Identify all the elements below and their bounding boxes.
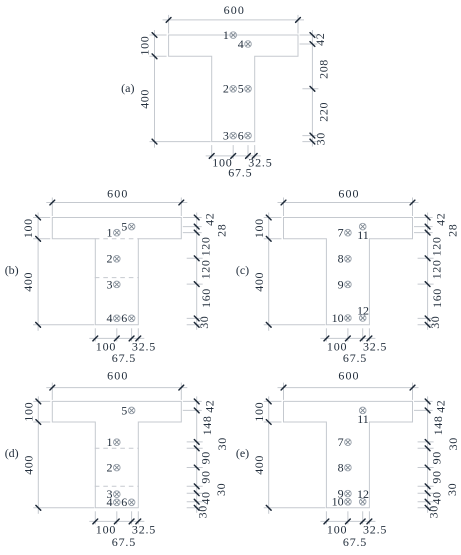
svg-text:5: 5 — [121, 220, 127, 234]
figure (e) strain gauge 8 — [338, 461, 352, 475]
svg-text:8: 8 — [338, 461, 344, 475]
svg-text:120: 120 — [430, 259, 444, 279]
svg-text:(e): (e) — [236, 446, 249, 460]
svg-text:12: 12 — [357, 487, 369, 501]
svg-text:11: 11 — [357, 228, 369, 242]
figure (a) top dimension 600 — [163, 3, 304, 34]
svg-text:1: 1 — [223, 28, 229, 42]
svg-text:5: 5 — [121, 403, 127, 417]
svg-text:100: 100 — [138, 36, 152, 56]
figure (c) sub-label (c) — [236, 263, 249, 277]
svg-text:7: 7 — [338, 435, 344, 449]
figure (d) sub-label (d) — [5, 446, 19, 460]
svg-text:30: 30 — [428, 316, 442, 329]
svg-text:30: 30 — [427, 505, 441, 518]
figure (a) left dimension 100 and 400 — [138, 30, 211, 148]
figure (d) strain gauge 6 — [121, 495, 135, 509]
svg-text:600: 600 — [107, 369, 128, 383]
svg-text:28: 28 — [445, 224, 459, 237]
figure (b) T-beam cross-section outline — [52, 218, 181, 325]
svg-text:600: 600 — [107, 187, 128, 201]
svg-text:10: 10 — [332, 311, 344, 325]
svg-text:6: 6 — [121, 311, 127, 325]
svg-text:67.5: 67.5 — [112, 351, 136, 365]
svg-text:3: 3 — [107, 277, 113, 291]
svg-text:12: 12 — [357, 303, 369, 317]
figure (a) strain gauge 2 — [223, 82, 237, 96]
figure (d) dashed layer line 2 — [95, 485, 139, 487]
svg-text:100: 100 — [252, 218, 266, 238]
figure (b) strain gauge 2 — [107, 252, 121, 266]
svg-text:67.5: 67.5 — [343, 351, 367, 365]
svg-text:(a): (a) — [121, 81, 134, 95]
svg-text:(c): (c) — [236, 263, 249, 277]
figure (d) top dimension 600 — [46, 369, 187, 400]
svg-text:67.5: 67.5 — [343, 535, 367, 549]
figure (e) strain gauge 9 — [338, 487, 352, 501]
figure (a) right dimension chain — [300, 30, 331, 147]
figure (b) strain gauge 1 — [107, 226, 121, 240]
figure (e) sub-label (e) — [236, 446, 249, 460]
svg-text:160: 160 — [199, 288, 213, 308]
figure (d) strain gauge 3 — [107, 487, 121, 501]
svg-text:220: 220 — [316, 102, 330, 122]
svg-text:67.5: 67.5 — [112, 535, 136, 549]
figure (b) strain gauge 5 — [121, 220, 135, 234]
figure (e) right dimension chain — [414, 396, 460, 518]
svg-text:4: 4 — [238, 37, 244, 51]
svg-text:6: 6 — [238, 129, 244, 143]
figure (d) right dimension chain — [183, 396, 229, 518]
figure (c) strain gauge 7 — [338, 226, 352, 240]
figure (a) strain gauge 1 — [223, 28, 237, 42]
figure (c) strain gauge 11 — [357, 223, 369, 242]
svg-text:30: 30 — [446, 437, 460, 450]
svg-text:90: 90 — [430, 451, 444, 464]
svg-text:600: 600 — [224, 3, 245, 17]
svg-text:2: 2 — [223, 82, 229, 96]
svg-text:6: 6 — [121, 495, 127, 509]
figure (d) strain gauge 2 — [107, 461, 121, 475]
figure (c) bottom dimensions 100, 67.5, 32.5 — [320, 328, 387, 365]
figure (e) strain gauge 12 — [357, 487, 369, 505]
svg-text:100: 100 — [21, 402, 35, 422]
figure (a) T-beam cross-section outline — [169, 35, 298, 142]
figure (d) strain gauge 4 — [107, 495, 121, 509]
svg-text:30: 30 — [314, 132, 328, 145]
svg-text:120: 120 — [199, 259, 213, 279]
svg-text:2: 2 — [107, 252, 113, 266]
svg-text:120: 120 — [199, 236, 213, 256]
svg-text:42: 42 — [433, 400, 447, 413]
svg-text:30: 30 — [215, 437, 229, 450]
svg-text:208: 208 — [316, 59, 330, 79]
svg-text:(b): (b) — [5, 263, 19, 277]
svg-text:40: 40 — [199, 491, 213, 504]
figure (b) strain gauge 3 — [107, 277, 121, 291]
figure (e) strain gauge 11 — [357, 407, 369, 426]
figure (a) strain gauge 6 — [238, 129, 252, 143]
figure (e) top dimension 600 — [278, 369, 419, 400]
figure (e) strain gauge 7 — [338, 435, 352, 449]
figure (d) left dimension 100 and 400 — [21, 396, 94, 513]
figure (e) bottom dimensions 100, 67.5, 32.5 — [320, 511, 387, 549]
figure (b) strain gauge 6 — [121, 311, 135, 325]
figure (b) top dimension 600 — [46, 187, 187, 217]
figure (c) left dimension 100 and 400 — [252, 213, 326, 331]
figure (b) right dimension chain — [183, 213, 229, 330]
svg-text:30: 30 — [196, 505, 210, 518]
svg-text:90: 90 — [430, 470, 444, 483]
figure (b) sub-label (b) — [5, 263, 19, 277]
svg-text:400: 400 — [252, 455, 266, 475]
svg-text:90: 90 — [199, 470, 213, 483]
figure (b) dashed layer line 1 — [95, 238, 139, 240]
figure (c) right dimension chain — [414, 213, 459, 330]
svg-text:148: 148 — [431, 415, 445, 435]
svg-text:2: 2 — [107, 461, 113, 475]
figure (d) bottom dimensions 100, 67.5, 32.5 — [89, 511, 156, 549]
svg-text:600: 600 — [338, 369, 359, 383]
svg-text:3: 3 — [223, 129, 229, 143]
figure (a) sub-label (a) — [121, 81, 134, 95]
svg-text:9: 9 — [338, 277, 344, 291]
figure (b) strain gauge 4 — [107, 311, 121, 325]
svg-text:30: 30 — [214, 483, 228, 496]
svg-text:30: 30 — [445, 483, 459, 496]
svg-text:40: 40 — [430, 491, 444, 504]
svg-text:10: 10 — [332, 495, 344, 509]
figure (b) bottom dimensions 100, 67.5, 32.5 — [89, 328, 156, 365]
svg-text:400: 400 — [252, 272, 266, 292]
figure (d) dashed layer line 1 — [95, 447, 139, 449]
figure (a) bottom dimensions 100, 67.5, 32.5 — [206, 145, 273, 180]
figure (a) strain gauge 4 — [238, 37, 252, 51]
figure (b) dashed layer line 2 — [95, 277, 139, 279]
figure (c) strain gauge 8 — [338, 252, 352, 266]
svg-text:1: 1 — [107, 435, 113, 449]
figure (c) strain gauge 9 — [338, 277, 352, 291]
svg-text:400: 400 — [21, 455, 35, 475]
svg-text:11: 11 — [357, 412, 369, 426]
svg-text:400: 400 — [138, 89, 152, 109]
figure (d) T-beam cross-section outline — [52, 401, 181, 507]
svg-text:8: 8 — [338, 252, 344, 266]
svg-text:600: 600 — [338, 187, 359, 201]
svg-text:5: 5 — [238, 82, 244, 96]
figure (c) top dimension 600 — [278, 187, 419, 217]
figure (d) strain gauge 5 — [121, 403, 135, 417]
figure (d) strain gauge 1 — [107, 435, 121, 449]
figure (e) strain gauge 10 — [332, 495, 352, 509]
svg-text:1: 1 — [107, 226, 113, 240]
svg-text:(d): (d) — [5, 446, 19, 460]
figure (e) left dimension 100 and 400 — [252, 396, 326, 513]
svg-text:30: 30 — [197, 316, 211, 329]
svg-text:120: 120 — [430, 236, 444, 256]
figure (a) strain gauge 5 — [238, 82, 252, 96]
figure (c) strain gauge 10 — [332, 311, 352, 325]
svg-text:67.5: 67.5 — [228, 166, 252, 180]
svg-text:148: 148 — [200, 415, 214, 435]
svg-text:28: 28 — [215, 224, 229, 237]
svg-text:4: 4 — [107, 311, 113, 325]
svg-text:4: 4 — [107, 495, 113, 509]
figure (c) strain gauge 12 — [357, 303, 369, 321]
figure (a) strain gauge 3 — [223, 129, 237, 143]
svg-text:400: 400 — [21, 272, 35, 292]
svg-text:42: 42 — [313, 33, 327, 46]
svg-text:100: 100 — [21, 218, 35, 238]
svg-text:42: 42 — [202, 400, 216, 413]
svg-text:160: 160 — [430, 288, 444, 308]
figure (b) left dimension 100 and 400 — [21, 213, 94, 331]
figure (e) T-beam cross-section outline — [284, 401, 413, 507]
figure (c) T-beam cross-section outline — [284, 218, 413, 325]
svg-text:100: 100 — [252, 402, 266, 422]
svg-text:7: 7 — [338, 226, 344, 240]
svg-text:90: 90 — [199, 451, 213, 464]
